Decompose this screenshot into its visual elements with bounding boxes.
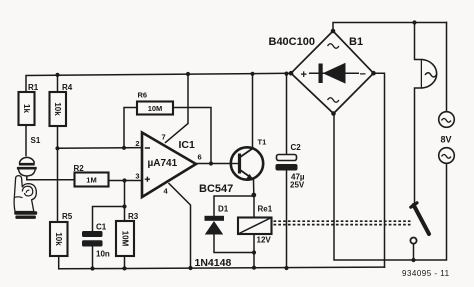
svg-text:Re1: Re1 [258, 205, 273, 214]
mechanical link dashed [274, 221, 411, 224]
svg-text:1M: 1M [86, 176, 96, 185]
AC source circle 2 [439, 148, 455, 164]
wire bell branch upper [415, 23, 423, 60]
junction R4 top rail [55, 73, 59, 77]
junction relay ground [252, 266, 256, 270]
wire T1 emitter [253, 180, 255, 195]
wire C2 bottom [286, 171, 288, 269]
transistor T1 BC547 [199, 138, 266, 196]
wire R4 top [57, 75, 59, 92]
bridge rectifier B1 [269, 31, 374, 114]
resistor R5 [50, 212, 73, 256]
touch contact S1 [17, 136, 41, 176]
svg-text:R3: R3 [128, 212, 139, 221]
svg-text:10k: 10k [53, 102, 62, 116]
junction pin7 supply rail [186, 72, 190, 76]
svg-text:R2: R2 [74, 164, 85, 173]
resistor R6 [137, 91, 173, 115]
resistor R3 [116, 212, 139, 256]
svg-text:µA741: µA741 [148, 158, 178, 169]
wire ground rail [59, 267, 385, 269]
svg-text:6: 6 [198, 153, 202, 162]
relay switch contact [410, 203, 429, 244]
wire pin7 supply [166, 74, 189, 143]
relay Re1 [238, 205, 273, 245]
svg-text:T1: T1 [258, 138, 267, 147]
svg-text:R4: R4 [62, 83, 73, 92]
wire pin3 [109, 180, 143, 182]
capacitor C1 [82, 223, 110, 259]
svg-text:−: − [360, 69, 366, 81]
svg-text:S1: S1 [31, 136, 41, 145]
svg-text:10n: 10n [96, 250, 110, 259]
wire bell branch lower [415, 88, 423, 204]
svg-text:7: 7 [162, 133, 166, 142]
wire switch stub [413, 244, 415, 260]
node bridge minus corner [371, 71, 376, 76]
svg-text:3: 3 [135, 172, 139, 181]
resistor R4 [50, 83, 73, 126]
svg-text:1N4148: 1N4148 [195, 257, 232, 269]
wire relay top [253, 195, 255, 218]
wire T1 collector [252, 74, 254, 148]
op-amp IC1 [135, 133, 201, 198]
junction C2 ground [284, 266, 288, 270]
wire R4 bottom [57, 126, 59, 148]
svg-text:25V: 25V [290, 181, 305, 190]
svg-text:B40C100: B40C100 [269, 36, 315, 48]
wire R6 left [124, 108, 137, 148]
junction R6 pin2 node [122, 146, 126, 150]
junction pin4 ground [188, 266, 192, 270]
wire R3 bottom [124, 256, 126, 268]
svg-text:R5: R5 [62, 212, 73, 221]
junction T1 emitter node [251, 193, 256, 198]
svg-text:8V: 8V [441, 135, 452, 145]
resistor R2 [74, 164, 109, 187]
node bridge AC bottom corner [331, 111, 336, 116]
wire R3 branch [124, 181, 126, 222]
junction C2 top rail [284, 72, 288, 76]
svg-text:1k: 1k [22, 104, 31, 113]
junction R4 R5 pin2 node [55, 146, 59, 150]
junction R3 ground [122, 266, 126, 270]
wire pin4 ground [169, 184, 191, 269]
junction R6 output node [209, 161, 213, 165]
svg-text:B1: B1 [349, 36, 363, 48]
svg-text:BC547: BC547 [199, 183, 233, 195]
junction pin3 R3 node [122, 178, 126, 182]
svg-text:12V: 12V [257, 236, 272, 245]
svg-text:10M: 10M [148, 104, 163, 113]
bell [422, 60, 437, 89]
wire pin2 [58, 147, 143, 150]
wire relay bottom [253, 234, 255, 268]
svg-text:IC1: IC1 [179, 139, 196, 151]
node bridge AC top corner [331, 29, 336, 34]
svg-text:R6: R6 [138, 91, 148, 100]
svg-text:R1: R1 [28, 83, 39, 92]
wire C1 bottom [92, 247, 94, 269]
svg-text:C2: C2 [291, 143, 302, 152]
svg-text:D1: D1 [218, 205, 229, 214]
wire R4R5 vertical [57, 148, 59, 222]
junction C1 R3 node [122, 204, 126, 208]
wire bridge top to rail [333, 23, 447, 32]
wire D1 top link [214, 196, 254, 216]
svg-text:10M: 10M [120, 231, 129, 247]
node bridge plus corner [289, 71, 294, 76]
junction C1 ground [90, 266, 94, 270]
svg-text:+: + [301, 69, 307, 81]
svg-text:10k: 10k [54, 232, 63, 246]
wire bridge bottom AC loop [334, 114, 447, 261]
junction D1 relay bottom node [252, 250, 256, 254]
wire D1 bottom link [214, 235, 254, 253]
svg-text:934095 - 11: 934095 - 11 [402, 269, 450, 278]
wire plate to R2 [27, 176, 75, 180]
wire R5 bottom [58, 256, 60, 269]
wire R6 right feedback [173, 108, 211, 164]
wire right rail to source [446, 23, 448, 112]
AC source circle 1 [439, 112, 455, 128]
wire R1 to S1 [25, 125, 27, 156]
wire C1 branch [93, 207, 125, 232]
junction bell branch top rail [412, 20, 416, 24]
junction T1 collector rail [250, 72, 254, 76]
resistor R1 [19, 83, 39, 125]
wire bridge minus [374, 73, 385, 267]
svg-text:C1: C1 [96, 223, 107, 232]
capacitor C2 [276, 143, 305, 190]
diode D1 [195, 205, 232, 270]
wire top rail [26, 73, 291, 92]
hand icon [14, 176, 37, 219]
svg-text:2: 2 [135, 139, 139, 148]
junction switch contact AC loop [411, 258, 415, 262]
wire C2 top [286, 74, 288, 155]
wire output to base [196, 163, 231, 165]
